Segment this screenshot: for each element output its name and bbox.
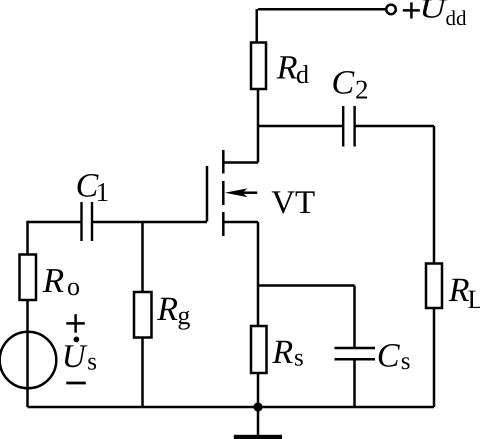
- svg-text:s: s: [294, 345, 304, 372]
- svg-text:VT: VT: [271, 185, 315, 221]
- svg-text:o: o: [67, 272, 80, 301]
- svg-text:s: s: [87, 349, 97, 376]
- svg-text:U: U: [62, 339, 88, 375]
- svg-text:2: 2: [355, 75, 369, 105]
- svg-text:dd: dd: [446, 6, 468, 30]
- svg-text:g: g: [177, 301, 190, 330]
- svg-text:R: R: [276, 50, 298, 87]
- svg-text:R: R: [271, 334, 293, 371]
- svg-text:R: R: [156, 291, 178, 328]
- svg-text:R: R: [42, 261, 64, 300]
- svg-text:s: s: [401, 348, 411, 375]
- svg-text:L: L: [468, 284, 480, 314]
- svg-text:d: d: [296, 60, 309, 89]
- svg-text:U: U: [419, 0, 448, 24]
- svg-text:R: R: [448, 272, 470, 309]
- svg-text:C: C: [377, 338, 400, 375]
- svg-text:C: C: [332, 65, 355, 102]
- svg-text:1: 1: [96, 177, 110, 207]
